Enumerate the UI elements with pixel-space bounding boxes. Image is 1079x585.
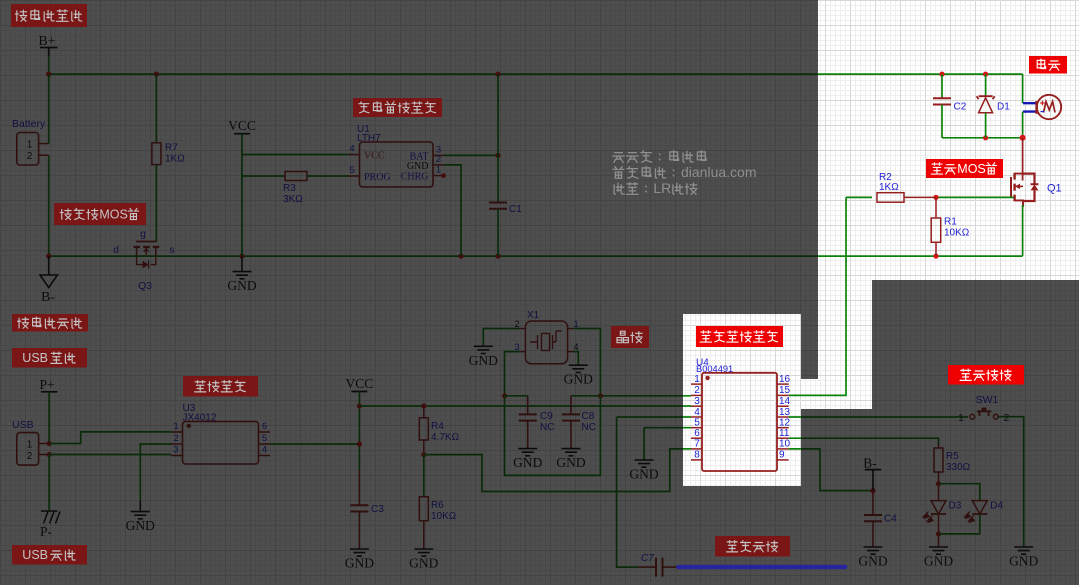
label 开关按键 (948, 365, 1024, 385)
svg-text:Q1: Q1 (1047, 183, 1062, 195)
ground GND (USB) (126, 501, 155, 533)
label USB正极 (12, 348, 87, 368)
wire SW1 pin2 to GND (998, 417, 1024, 547)
wire bluetooth antenna (679, 565, 846, 570)
power flag VCC (lower) (346, 376, 374, 392)
label 开关MOS管 (926, 159, 1003, 178)
wire B+ stem (48, 56, 50, 74)
svg-text:MOS: MOS (957, 162, 985, 176)
chip U3 JX4012 (171, 403, 270, 464)
capacitor C4 (864, 491, 897, 547)
wire Q1 source to rail (1022, 205, 1024, 256)
svg-text:D1: D1 (997, 102, 1010, 113)
power flag VCC (228, 118, 256, 134)
label 马达 (1029, 56, 1067, 74)
svg-text:9: 9 (779, 450, 785, 461)
capacitor C2 (933, 74, 967, 138)
led D3 (923, 484, 962, 537)
capacitor C3 (350, 470, 384, 549)
svg-text:7: 7 (694, 439, 700, 450)
resistor R2 (846, 172, 936, 202)
transistor Q3 (113, 228, 175, 292)
wire U4 pin11 to R5 (789, 438, 939, 443)
wire U4 pin13 to SW1 (789, 416, 968, 418)
label 未知芯片 (183, 376, 258, 397)
ground GND (U4 pin5) (629, 460, 658, 482)
wire P+ down (48, 392, 50, 444)
net flag B+ (38, 34, 57, 58)
resistor R4 (419, 406, 459, 457)
ground GND (C8) (556, 449, 585, 471)
switch SW1 (958, 394, 1010, 424)
connector Battery (12, 118, 49, 165)
wire Q1 gate (933, 195, 1013, 200)
svg-text:LR: LR (653, 180, 671, 196)
svg-text:16: 16 (779, 374, 791, 385)
wire U3 pin5 to VCC (270, 443, 359, 445)
wire battery pin2 down (48, 155, 50, 256)
wire X1 pin4 to GND (573, 352, 578, 366)
svg-text:5: 5 (694, 418, 700, 429)
wire D3 cathode to GND (938, 534, 940, 547)
capacitor C8 (562, 396, 600, 449)
svg-text:R1: R1 (944, 217, 957, 228)
svg-text:11: 11 (779, 428, 790, 439)
chip U4 B004491 bluetooth main controller (691, 358, 791, 472)
svg-text:USB: USB (22, 351, 48, 365)
wire top rail B+ (49, 73, 1023, 75)
wire U4 pin10 to B- node (789, 449, 876, 493)
label 锂电池正极 (11, 4, 87, 27)
svg-text:12: 12 (779, 418, 791, 429)
wire bottom rail (49, 255, 1023, 257)
wire X1 pin3 down (502, 352, 520, 399)
svg-text:USB: USB (22, 548, 48, 562)
wire U4 pin4 to antenna (617, 417, 691, 567)
connector USB (12, 419, 52, 465)
label 锂电池负极 (12, 314, 88, 332)
svg-text:B004491: B004491 (696, 364, 733, 374)
motor M1 (1023, 95, 1061, 119)
ground GND (SW1) (1009, 547, 1038, 569)
svg-text:1: 1 (694, 374, 700, 385)
wire top rail to motor drop (1022, 74, 1024, 103)
watermark text (613, 151, 757, 196)
resistor R1 (931, 197, 970, 256)
resistor R3 (242, 172, 349, 206)
diode D1 (977, 74, 1011, 138)
led D4 (939, 501, 1004, 534)
wire USB pin1 to U3 pin1 (49, 432, 171, 444)
wire VCC to U1 pin4 (242, 154, 349, 156)
wire VCC lower vertical (357, 392, 362, 471)
svg-text:3: 3 (694, 396, 700, 407)
svg-text:4: 4 (694, 407, 700, 418)
resistor R6 (419, 455, 456, 549)
svg-text:1KΩ: 1KΩ (879, 182, 899, 193)
net flag B- (battery sense) (863, 456, 881, 491)
svg-text:10KΩ: 10KΩ (944, 228, 970, 239)
svg-text:2: 2 (694, 385, 700, 396)
ground GND (X1 pin2) (469, 346, 498, 368)
svg-text:MOS: MOS (99, 208, 127, 222)
wire U4 pin5 to GND (644, 428, 691, 460)
wire battery pin1 to rail (48, 74, 50, 144)
wire X1 pin1 to U4 pin2 (573, 329, 691, 399)
label USB负极 (12, 545, 87, 565)
svg-text:6: 6 (694, 428, 700, 439)
chip U1 LTH7 charge management IC (349, 124, 446, 187)
wire U1 BAT to C1 net (444, 153, 501, 158)
node bottom rail junctions (46, 254, 939, 259)
resistor R7 (152, 74, 185, 241)
ground GND (R6) (409, 549, 438, 571)
wire VCC to U4 pin3 (359, 403, 691, 408)
capacitor C7 (638, 553, 678, 577)
wire divider tap to U4 pin7 (424, 449, 691, 492)
wire crystal loop (505, 396, 601, 476)
svg-text:C2: C2 (954, 102, 967, 113)
wire U3 pin2 to GND (140, 444, 171, 501)
capacitor C1 (489, 74, 522, 256)
ground GND (X1 pin4) (564, 365, 593, 387)
wire U1 GND down (444, 165, 462, 256)
net flag P+ (39, 377, 57, 392)
wire R2 to U4 pin15 riser (789, 197, 846, 395)
svg-text:15: 15 (779, 385, 791, 396)
svg-text:dianlua.com: dianlua.com (681, 164, 757, 180)
svg-text:14: 14 (779, 396, 791, 407)
label 防反接MOS管 (54, 203, 146, 225)
net flag B- (40, 256, 57, 305)
ground GND (C9) (513, 449, 542, 471)
wire USB pin2 to U3 pin3 (49, 454, 171, 456)
ground P- (chassis) (40, 511, 60, 539)
node top rail junctions (46, 72, 988, 77)
capacitor C9 (505, 396, 555, 449)
wire Q1 drain (1022, 138, 1024, 181)
crystal X1 (514, 310, 578, 364)
label 充电管理芯片 (353, 98, 442, 117)
transistor Q1 (1011, 173, 1062, 207)
ground GND (LEDs) (924, 547, 953, 569)
ground GND (C3) (345, 549, 374, 571)
wire R5 to D4 (939, 484, 980, 501)
wire snubber rail (942, 135, 1026, 141)
wire motor minus down (1022, 112, 1024, 138)
label 蓝牙天线 (715, 536, 790, 557)
wire P- stem (48, 455, 50, 512)
label 蓝牙主控芯片 (696, 326, 783, 347)
wire VCC vertical (241, 134, 243, 256)
wire X1 pin2 to GND (483, 329, 519, 347)
resistor R5 (934, 444, 971, 487)
label 晶振 (611, 326, 649, 348)
ground GND (main rail) (227, 256, 256, 293)
ground GND (C4) (858, 547, 887, 569)
svg-text:8: 8 (694, 450, 700, 461)
